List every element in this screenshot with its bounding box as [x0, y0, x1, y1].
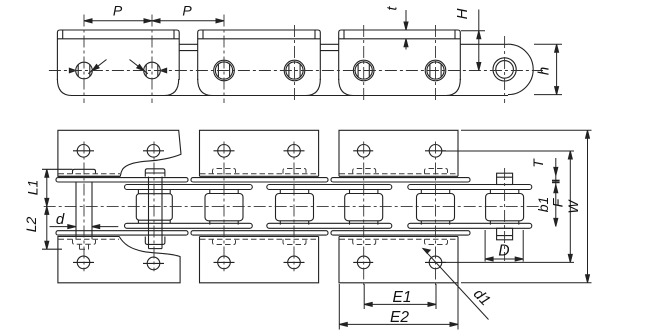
vertical centerline joint5 plan — [363, 142, 365, 286]
rivet mark pin1 right (with tail) — [92, 65, 99, 71]
outer plate strip A block3 — [331, 178, 470, 182]
hidden pin head joint3 — [213, 169, 236, 174]
roller (plan) joint4 — [276, 194, 314, 221]
attachment wing top 3 — [339, 130, 458, 176]
dimension t — [404, 10, 408, 50]
link plate block 2 — [198, 30, 321, 80]
pin 2 (side) — [144, 62, 161, 79]
vertical centerline pin1 plan — [83, 142, 85, 272]
chain bottom line — [71, 95, 508, 97]
attachment wing bottom 3 — [339, 237, 458, 283]
pin 1 T-head — [73, 169, 96, 174]
dimension W — [461, 130, 592, 282]
pin 2 roller — [136, 194, 172, 221]
svg-text:T: T — [530, 158, 546, 168]
wing bottom 3 hole b — [429, 256, 442, 269]
wing bottom 2 hole a — [218, 256, 231, 269]
attachment wing bottom 2 — [200, 237, 319, 283]
dimension L1 — [45, 169, 49, 206]
inner plate strip C link2-3 — [267, 223, 392, 228]
dimension F — [441, 151, 574, 262]
hidden cotter joint4 — [283, 239, 306, 244]
dimension d — [50, 225, 119, 229]
roller (plan) joint3 — [205, 194, 243, 221]
roller (plan) end joint — [486, 194, 524, 221]
inner plate strip B end link — [408, 185, 532, 190]
hidden bend line wing top 3 — [340, 173, 459, 175]
svg-text:L1: L1 — [25, 180, 41, 196]
horizontal centerline plan — [44, 205, 542, 207]
wing top 1 hole a — [77, 145, 90, 158]
attachment wing top 2 — [200, 130, 319, 176]
rivet mark pin2 right — [160, 68, 166, 72]
hidden bend line wing bottom 1 — [59, 238, 120, 240]
hidden pin head joint4 — [283, 169, 306, 174]
pin 1 (plan) — [75, 182, 77, 237]
wing top 3 hole a — [357, 145, 370, 158]
svg-text:L2: L2 — [23, 217, 39, 233]
svg-text:D: D — [498, 243, 509, 260]
hidden pin head joint5 — [353, 169, 376, 174]
hidden (dashed) details plan view — [59, 169, 459, 250]
outer plate strip D block2 — [191, 231, 328, 235]
wing top 2 hole b — [288, 145, 301, 158]
horizontal centerline top view — [49, 70, 543, 72]
vertical centerline joint5 — [363, 25, 365, 103]
hidden bend line wing bottom 2 — [200, 238, 318, 240]
hidden cotter joint3 — [213, 239, 236, 244]
outer plate strip D block3 — [331, 231, 470, 235]
wing bottom 1 hole a — [77, 256, 90, 269]
attachment wing top 1 (with break-out) — [58, 130, 181, 176]
wing bottom 3 hole a — [357, 256, 370, 269]
hidden cotter joint5 — [353, 239, 376, 244]
pin 2 cotter plate — [145, 237, 165, 245]
dimension L2 — [45, 206, 49, 249]
svg-text:d1: d1 — [470, 285, 494, 309]
svg-text:W: W — [565, 199, 581, 214]
L1 extension line — [42, 168, 73, 170]
vertical centerline pin2 — [151, 15, 153, 104]
roller at end joint — [493, 58, 516, 81]
roller at joint 3 — [214, 60, 235, 81]
svg-text:P: P — [182, 3, 192, 19]
dimension h — [534, 44, 562, 94]
inner plate strip C end link — [408, 223, 532, 228]
dimension D — [485, 230, 523, 262]
wing top 3 hole b — [429, 145, 442, 158]
end link (plain, rounded end) — [460, 43, 508, 45]
roller (plan) joint5 — [345, 194, 383, 221]
roller at joint 4 — [284, 60, 305, 81]
vertical centerline pin2 plan — [153, 142, 155, 272]
hidden bend line wing top 1 — [59, 173, 121, 175]
outer plate strip D block1 — [56, 231, 188, 235]
dimension E2 — [339, 283, 458, 330]
vertical centerline pin1 — [83, 15, 85, 104]
inner plate bar in gap 2 — [320, 43, 338, 45]
L2 extension line — [42, 248, 62, 250]
dimension E1 — [364, 284, 436, 309]
hidden bend line wing bottom 3 — [340, 238, 459, 240]
wing top 1 hole b — [147, 145, 160, 158]
vertical centerline joint3 plan — [223, 142, 225, 272]
vertical centerline joint4 plan — [293, 142, 295, 272]
hidden bend line wing top 2 — [200, 173, 318, 175]
link plate block 1 — [57, 30, 179, 80]
roller at joint 6 — [425, 60, 446, 81]
vertical centerline end joint plan — [504, 168, 506, 261]
vertical centerline joint6 plan — [435, 142, 437, 286]
pin stub end joint bottom — [497, 228, 513, 240]
hidden cotter pin1 — [73, 239, 96, 244]
rivet mark pin1 left — [69, 68, 75, 72]
wing bottom 1 hole b — [147, 257, 160, 270]
vertical centerline joint4 — [294, 25, 296, 103]
pin 2 (plan) — [148, 177, 150, 249]
vertical centerline joint6 — [435, 25, 437, 103]
svg-text:P: P — [113, 3, 123, 19]
svg-text:t: t — [384, 5, 400, 10]
dimension P (x2) — [84, 19, 224, 23]
vertical centerline joint3 — [223, 15, 225, 104]
inner plate strip C link1-2 — [125, 223, 253, 228]
vertical centerline end joint — [504, 36, 506, 103]
rivet marks pins 1-2 — [69, 60, 166, 74]
svg-text:E1: E1 — [393, 289, 412, 306]
inner plate bar in gap 1 — [179, 43, 198, 45]
svg-text:H: H — [454, 8, 471, 19]
leader d1 — [423, 249, 489, 320]
wing top 2 hole a — [218, 145, 231, 158]
svg-text:F: F — [550, 197, 566, 207]
center lines: top view — [49, 15, 543, 104]
rivet mark pin2 left (with tail) — [137, 65, 144, 71]
center lines plan view — [44, 142, 542, 286]
roller at joint 5 — [353, 60, 374, 81]
dimension H — [461, 10, 485, 71]
svg-text:h: h — [536, 67, 553, 75]
hidden pin head joint6 — [425, 169, 448, 174]
link plate block 3 — [339, 30, 461, 80]
roller (plan) joint6 — [417, 194, 455, 221]
svg-text:d: d — [56, 211, 65, 228]
svg-text:E2: E2 — [390, 309, 409, 326]
wing bottom 2 hole b — [288, 256, 301, 269]
outer plate strip A block1 — [56, 178, 188, 182]
inner plate strip B link2-3 — [267, 185, 392, 190]
outer plate strip A block2 — [191, 178, 328, 182]
dimension T / b1 — [552, 158, 560, 226]
hidden cotter joint6 — [425, 239, 448, 244]
pin stub end joint top — [497, 173, 513, 184]
inner plate strip B link1-2 — [125, 185, 253, 190]
attachment wing bottom 1 (with break-out) — [58, 237, 180, 283]
pin 1 (side) — [76, 62, 93, 79]
pin 2 T-head — [145, 169, 165, 177]
